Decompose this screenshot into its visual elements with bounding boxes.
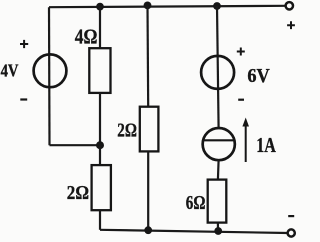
resistor R2 (2 ohm lower-left) (92, 165, 111, 210)
junction: R4 branch at bottom bus (214, 227, 222, 235)
svg-text:4Ω: 4Ω (75, 25, 98, 49)
wire: current source to R4 (217, 160, 220, 180)
svg-text:6V: 6V (247, 66, 269, 87)
junction: top of middle branch (144, 2, 152, 10)
resistor R3 (2 ohm middle) (140, 107, 159, 152)
wire: node A down to R2 (99, 145, 101, 166)
wire: right branch from top bus through V2 to current source (217, 6, 219, 128)
label: output - (288, 215, 294, 217)
label: V1 polarity - (20, 98, 27, 100)
terminal: - output (open circle, bottom right) (288, 229, 295, 236)
svg-text:2Ω: 2Ω (117, 120, 137, 141)
junction: top of right source branch (213, 2, 221, 10)
svg-text:1A: 1A (256, 133, 276, 157)
wire: middle branch upper segment (146, 5, 149, 107)
svg-text:4V: 4V (1, 61, 19, 81)
label: V2 polarity + (237, 48, 245, 56)
voltage source V1 (4V) (34, 54, 67, 87)
wire: R2 bottom to bottom bus corner (99, 210, 101, 230)
junction: middle branch at bottom bus (144, 226, 152, 234)
wire: top bus down to R1 (99, 7, 101, 49)
resistor R1 (4 ohm) (89, 48, 110, 93)
junction: node A (96, 141, 104, 149)
label: output + (287, 21, 295, 29)
current source I1 (1A) (203, 128, 235, 160)
wire: bottom bus from corner to - output terminal (100, 230, 288, 233)
resistor R4 (6 ohm) (208, 180, 227, 223)
wire: R1 bottom to node A (99, 93, 101, 145)
wire: lower-left horizontal to node A (50, 144, 101, 146)
wire: R4 bottom to bottom bus (217, 223, 219, 231)
wire: middle branch lower segment (147, 151, 149, 230)
svg-text:6Ω: 6Ω (186, 192, 206, 214)
wire: left branch vertical (through 4V source) (48, 7, 51, 145)
svg-text:2Ω: 2Ω (67, 182, 89, 204)
wire: top bus from top-left corner to + output terminal (49, 6, 285, 7)
arrow: I1 direction (up) (242, 118, 249, 163)
junction: top of 4-ohm branch (96, 3, 104, 11)
label: V2 polarity - (238, 99, 244, 101)
current source I1 bar (203, 139, 234, 141)
voltage source V2 (6V) (201, 56, 234, 89)
label: V1 polarity + (20, 40, 28, 48)
terminal: + output (open circle, top right) (286, 2, 293, 9)
